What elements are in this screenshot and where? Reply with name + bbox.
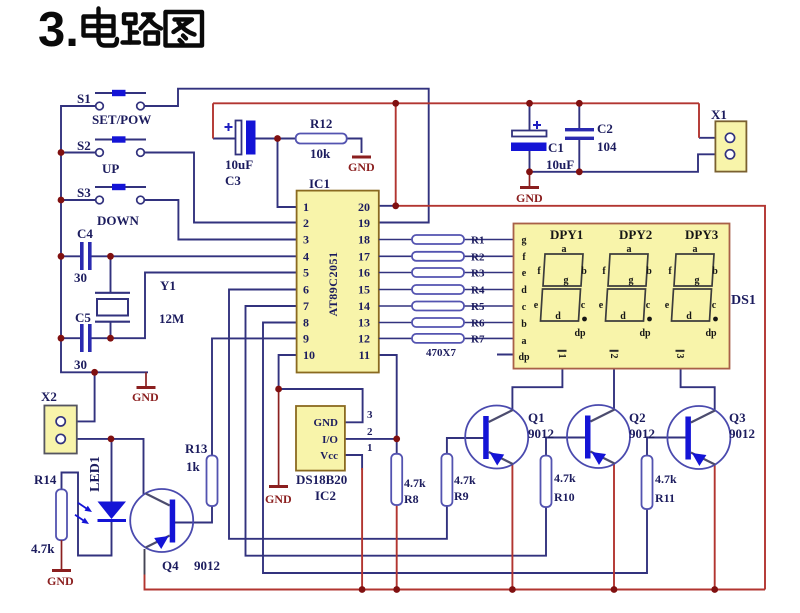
svg-text:4.7k: 4.7k (31, 541, 55, 556)
svg-text:c: c (646, 300, 651, 311)
wire C1 bottom to X1 pin2 (530, 151, 726, 172)
wire IO node to R8 (396, 439, 398, 454)
wire IC1 pin20 stub (379, 205, 396, 207)
svg-text:SET/POW: SET/POW (92, 112, 151, 127)
capacitor C3 10uF electrolytic (225, 121, 256, 189)
svg-text:LED1: LED1 (88, 456, 103, 492)
svg-text:1: 1 (303, 200, 309, 214)
svg-text:30: 30 (74, 357, 87, 372)
wire C2 bottom (578, 140, 580, 172)
svg-text:a: a (522, 336, 527, 347)
svg-text:DOWN: DOWN (97, 213, 140, 228)
svg-text:Q2: Q2 (629, 410, 646, 425)
svg-text:10: 10 (303, 348, 315, 362)
svg-text:R8: R8 (404, 492, 419, 506)
wire R8 bottom to rail (396, 505, 398, 590)
wire R9 to Q1 base (447, 438, 485, 454)
svg-text:R4: R4 (471, 285, 485, 297)
resistor R13 1k (185, 441, 218, 506)
resistor R9 4.7k (441, 454, 476, 506)
display common pin 1 (556, 350, 567, 359)
svg-text:d: d (555, 311, 561, 322)
svg-text:S3: S3 (77, 185, 91, 200)
wire C2 top (578, 103, 580, 128)
wire R11 to Q3 base (647, 438, 687, 456)
svg-text:I/O: I/O (322, 434, 338, 446)
crystal Y1 12M (95, 278, 184, 326)
svg-text:c: c (581, 300, 586, 311)
svg-text:12: 12 (358, 332, 370, 346)
svg-text:d: d (620, 311, 626, 322)
svg-text:3: 3 (674, 354, 685, 359)
switch S3 DOWN (77, 184, 146, 228)
wire IC1 pin11 to IO node (379, 355, 397, 439)
wire X2 pin1 to gnd node (65, 372, 95, 421)
resistor R14 4.7k (31, 472, 67, 556)
wire DS1 pin3 to Q3 collector (681, 369, 715, 411)
svg-text:GND: GND (314, 417, 339, 429)
wire gnd node to DS18B20 GND pin (279, 389, 363, 422)
svg-text:R3: R3 (471, 268, 485, 280)
wire S3 to IC1 pin3 (144, 200, 297, 240)
svg-text:Q4: Q4 (162, 558, 179, 573)
switch S2 UP (77, 136, 146, 176)
svg-text:12M: 12M (159, 311, 184, 326)
wire DS1 dp stub (497, 354, 514, 356)
display common pin 2 (608, 350, 619, 359)
svg-text:9: 9 (303, 332, 309, 346)
svg-text:GND: GND (265, 492, 292, 506)
svg-text:10uF: 10uF (546, 157, 574, 172)
svg-text:9012: 9012 (629, 426, 655, 441)
digit DPY2 (599, 244, 652, 339)
capacitor C2 104 (565, 121, 617, 154)
svg-text:3: 3 (303, 233, 309, 247)
digit DPY1 (534, 244, 587, 339)
wire Q1 emitter to rail (511, 464, 513, 590)
svg-text:10k: 10k (310, 146, 331, 161)
svg-text:dp: dp (574, 328, 586, 339)
wire LED anode (111, 439, 113, 502)
wire Q2 emitter to rail (613, 463, 615, 590)
svg-text:DPY2: DPY2 (619, 227, 652, 242)
wire X2 pin2 to LED node (65, 438, 111, 440)
wire R10 to Q2 base (546, 438, 587, 456)
wire VCC pin20 rail to right border (396, 206, 765, 590)
svg-text:R1: R1 (471, 235, 484, 247)
svg-text:7: 7 (303, 299, 309, 313)
svg-text:20: 20 (358, 200, 370, 214)
wire DS1 pin1 to Q1 collector (512, 369, 562, 409)
svg-text:C4: C4 (77, 226, 93, 241)
wire Q3 emitter to rail (714, 464, 716, 590)
wire LED cathode to R14 (62, 473, 112, 556)
switch S1 SET/POW (77, 90, 151, 127)
wire X1 pin1 stub (699, 137, 726, 139)
ground symbol near IC2 (265, 389, 292, 506)
svg-text:1k: 1k (186, 459, 201, 474)
svg-text:17: 17 (358, 250, 370, 264)
svg-text:a: a (562, 244, 567, 255)
svg-text:g: g (695, 275, 700, 286)
svg-text:16: 16 (358, 266, 370, 280)
wire IC1 pin9 to R13 (212, 338, 297, 455)
IC U2 DS18B20 (IC2) (296, 406, 373, 503)
wire X1 pin1 riser (698, 103, 700, 138)
svg-text:8: 8 (303, 316, 309, 330)
transistor Q2 9012 (567, 405, 655, 468)
resistor R10 4.7k (541, 456, 577, 507)
svg-text:dp: dp (518, 352, 530, 363)
svg-text:30: 30 (74, 270, 87, 285)
WIRES-RED power nets (145, 103, 766, 589)
wire C5 row (61, 337, 81, 339)
svg-text:dp: dp (639, 328, 651, 339)
svg-text:GND: GND (516, 191, 543, 205)
ground symbol left of X2 (132, 372, 159, 404)
svg-text:R11: R11 (655, 491, 675, 505)
svg-text:15: 15 (358, 283, 370, 297)
svg-text:e: e (534, 300, 539, 311)
wire VCC bottom rail (145, 575, 766, 590)
svg-text:S1: S1 (77, 91, 91, 106)
svg-text:S2: S2 (77, 138, 91, 153)
svg-text:e: e (665, 300, 670, 311)
svg-text:c: c (712, 300, 717, 311)
wire C5 to IC1 pin5 (90, 273, 297, 339)
svg-text:C1: C1 (548, 140, 564, 155)
transistor Q3 9012 (667, 406, 755, 469)
svg-text:g: g (564, 275, 569, 286)
svg-text:4.7k: 4.7k (554, 471, 576, 485)
svg-text:R9: R9 (454, 489, 469, 503)
svg-text:104: 104 (597, 139, 617, 154)
svg-text:UP: UP (102, 161, 119, 176)
svg-text:b: b (646, 266, 652, 277)
WIRES-NAVY (61, 89, 726, 575)
wire vcc drop to pin20 rail (395, 103, 397, 206)
svg-text:C5: C5 (75, 310, 91, 325)
wire left GND bus (61, 106, 148, 372)
svg-text:e: e (599, 300, 604, 311)
svg-text:X2: X2 (41, 389, 57, 404)
svg-text:d: d (686, 311, 692, 322)
wire C3 node to R12 (213, 138, 236, 140)
wire crystal top tap (110, 256, 112, 293)
svg-text:6: 6 (303, 283, 309, 297)
svg-text:R13: R13 (185, 441, 208, 456)
svg-text:DS18B20: DS18B20 (296, 472, 347, 487)
wire DS18B20 Vcc to rail (361, 468, 363, 590)
svg-text:C3: C3 (225, 173, 241, 188)
svg-text:R7: R7 (471, 334, 485, 346)
svg-text:4.7k: 4.7k (454, 473, 476, 487)
svg-text:R10: R10 (554, 490, 575, 504)
svg-text:9012: 9012 (729, 426, 755, 441)
wire IC1 pin10 to gnd node (279, 355, 297, 389)
resistor R12 10k (296, 116, 347, 161)
svg-text:R12: R12 (310, 116, 332, 131)
digit DPY3 (665, 244, 718, 339)
svg-text:4.7k: 4.7k (655, 472, 677, 486)
wire DS18B20 Vcc pin (345, 455, 362, 470)
wire LED node to Q4 collector (111, 439, 144, 495)
svg-text:R5: R5 (471, 301, 485, 313)
svg-text:18: 18 (358, 233, 370, 247)
capacitor C1 10uF electrolytic (511, 121, 574, 172)
ground symbol near C1 (516, 172, 543, 205)
svg-text:2: 2 (608, 354, 619, 359)
svg-text:DPY3: DPY3 (685, 227, 719, 242)
svg-text:a: a (627, 244, 632, 255)
svg-text:GND: GND (132, 390, 159, 404)
display DS1 three digit (514, 224, 756, 369)
svg-text:1: 1 (367, 442, 373, 454)
svg-text:GND: GND (348, 160, 375, 174)
svg-text:g: g (629, 275, 634, 286)
svg-text:c: c (522, 302, 527, 313)
display common pin 3 (674, 350, 685, 359)
svg-text:IC1: IC1 (309, 176, 330, 191)
wire R13 to Q4 base (170, 506, 212, 523)
svg-text:a: a (693, 244, 698, 255)
svg-text:9012: 9012 (528, 426, 554, 441)
svg-text:13: 13 (358, 316, 370, 330)
svg-text:19: 19 (358, 216, 370, 230)
svg-text:R14: R14 (34, 472, 57, 487)
svg-text:Q1: Q1 (528, 410, 545, 425)
svg-text:Vcc: Vcc (320, 450, 338, 462)
capacitor C4 value 30 (74, 226, 93, 285)
resistor R11 4.7k (642, 456, 678, 509)
svg-text:2: 2 (367, 426, 373, 438)
svg-text:DPY1: DPY1 (550, 227, 583, 242)
svg-text:IC2: IC2 (315, 488, 336, 503)
transistor Q4 9012 (130, 489, 220, 573)
svg-text:5: 5 (303, 266, 309, 280)
wire C4 row to IC1 pin4 (61, 255, 81, 257)
svg-text:4: 4 (303, 250, 309, 264)
IC U1 AT89C2051 (IC1) (297, 176, 379, 373)
wire S2 to IC1 pin2 (144, 153, 297, 223)
svg-text:3.: 3. (38, 3, 79, 57)
capacitor C5 value 30 (74, 310, 92, 372)
connector X1 (711, 107, 746, 172)
svg-text:b: b (581, 266, 587, 277)
wire C1 top (529, 103, 531, 130)
svg-text:b: b (712, 266, 718, 277)
wire IC1 pin8 to R11 (263, 323, 647, 574)
svg-text:10uF: 10uF (225, 157, 253, 172)
wire C3 node to IC1 pin1 (278, 139, 297, 208)
svg-text:3: 3 (367, 409, 373, 421)
svg-text:1: 1 (556, 354, 567, 359)
svg-text:DS1: DS1 (731, 293, 756, 308)
svg-text:X1: X1 (711, 107, 727, 122)
ground symbol near R12 (348, 156, 375, 175)
svg-text:dp: dp (705, 328, 717, 339)
resistor R8 4.7k (391, 454, 426, 506)
svg-text:9012: 9012 (194, 558, 220, 573)
svg-text:GND: GND (47, 574, 74, 588)
svg-text:11: 11 (359, 348, 370, 362)
svg-text:C2: C2 (597, 121, 613, 136)
connector X2 (41, 389, 77, 454)
svg-text:470X7: 470X7 (426, 347, 456, 359)
svg-text:14: 14 (358, 299, 370, 313)
svg-text:4.7k: 4.7k (404, 476, 426, 490)
transistor Q1 9012 (465, 406, 554, 469)
svg-text:d: d (521, 285, 527, 296)
wire IC1 pin6 to R9 (229, 290, 447, 539)
wire Q4 emitter lead (144, 549, 146, 575)
wire DS1 pin2 to Q2 collector (613, 369, 615, 410)
svg-text:e: e (522, 268, 527, 279)
svg-text:AT89C2051: AT89C2051 (326, 252, 340, 317)
wire R12 right to GND (347, 139, 362, 154)
svg-text:2: 2 (303, 216, 309, 230)
wire IC1 pin7 to R10 (246, 306, 547, 556)
wire crystal bottom tap (110, 322, 112, 339)
wire S3 left stub (61, 199, 96, 201)
svg-text:g: g (522, 235, 527, 246)
svg-text:Y1: Y1 (160, 278, 176, 293)
svg-text:b: b (521, 319, 527, 330)
wire S1 to IC1 pin19 (144, 89, 429, 223)
wire DS18B20 IO pin (345, 438, 397, 440)
svg-text:Q3: Q3 (729, 410, 746, 425)
wire C3 plus riser (212, 103, 214, 138)
wire VCC top rail (213, 102, 699, 104)
ground symbol below R14 (47, 540, 74, 588)
svg-text:R6: R6 (471, 318, 485, 330)
svg-text:R2: R2 (471, 252, 485, 264)
wire S2 left stub (61, 152, 96, 154)
LED LED1 photodiode (75, 456, 126, 524)
resistor network R1-R7 470X7 (379, 235, 514, 360)
